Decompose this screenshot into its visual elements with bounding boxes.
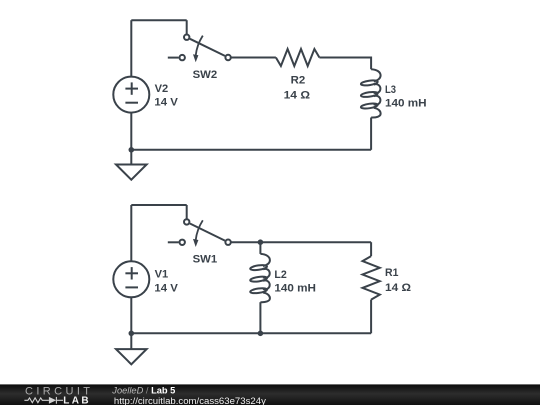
ground (top circuit)	[116, 165, 147, 180]
SW1 left throw circle	[180, 240, 185, 245]
SW1 left throw stub	[168, 241, 179, 243]
node junction (bottom circuit, ground)	[129, 331, 135, 337]
wire R1 top	[370, 242, 372, 256]
wire SW1 to L2 node and on to R1	[231, 241, 371, 243]
wire V2 bottom	[130, 113, 132, 150]
SW1 arm	[190, 224, 225, 241]
svg-text:14 Ω: 14 Ω	[385, 282, 411, 294]
wire ground stem (top)	[130, 150, 132, 165]
node junction (L2 bottom)	[258, 331, 264, 337]
switch SW2	[168, 35, 231, 63]
svg-text:JoelleD / Lab 5: JoelleD / Lab 5	[111, 386, 175, 396]
wire R1 bottom	[370, 300, 372, 334]
svg-text:L3: L3	[385, 84, 396, 96]
SW1 right throw circle	[225, 240, 230, 245]
SW2 actuation arc	[196, 36, 203, 56]
wire top rail (bottom circuit)	[131, 204, 186, 206]
wire top rail	[131, 19, 186, 21]
voltage source V1	[113, 261, 149, 297]
voltage source V2	[113, 77, 149, 113]
wire top-left vertical (V1 top to rail)	[130, 205, 132, 261]
svg-text:SW1: SW1	[193, 254, 218, 266]
SW2 arrow head	[193, 54, 198, 62]
wire L3 to bottom rail	[370, 118, 372, 150]
svg-text:14 V: 14 V	[154, 283, 178, 295]
ground (bottom circuit)	[116, 349, 147, 364]
wire bottom rail (top circuit)	[131, 149, 371, 151]
node junction (L2 top)	[258, 239, 264, 245]
logo diode triangle	[49, 397, 56, 404]
switch SW1	[168, 219, 231, 247]
wire bottom rail (bottom circuit)	[131, 332, 371, 334]
SW1 arrow head	[193, 239, 198, 247]
logo schematic wire with resistor and diode	[24, 397, 63, 404]
svg-text:LAB: LAB	[63, 395, 91, 405]
wire L2 top	[259, 242, 261, 254]
SW2 right throw circle	[225, 55, 230, 60]
svg-text:140 mH: 140 mH	[385, 98, 427, 110]
svg-text:http://circuitlab.com/cass63e7: http://circuitlab.com/cass63e73s24y	[114, 396, 266, 405]
svg-text:R2: R2	[291, 75, 306, 87]
wire R2 to corner	[319, 58, 371, 70]
wire V1 bottom	[130, 297, 132, 333]
svg-text:SW2: SW2	[193, 69, 218, 81]
resistor R2	[276, 49, 320, 66]
svg-text:14 V: 14 V	[154, 97, 178, 109]
inductor L3	[361, 69, 381, 117]
wire top-left vertical (V2 top to top rail)	[130, 20, 132, 76]
wire ground stem (bottom)	[130, 333, 132, 349]
SW2 left throw stub	[168, 57, 179, 59]
svg-text:V2: V2	[155, 83, 169, 95]
inductor L2	[250, 254, 270, 302]
svg-text:L2: L2	[274, 269, 286, 281]
wire down to SW2 pivot	[186, 20, 188, 34]
SW1 pivot circle	[184, 219, 189, 224]
wire SW2 to R2	[231, 57, 276, 59]
wire L2 bottom	[259, 302, 261, 333]
svg-text:R1: R1	[385, 267, 398, 279]
node junction (top circuit, ground)	[129, 147, 135, 153]
SW1 actuation arc	[196, 220, 203, 240]
SW2 pivot circle	[184, 35, 189, 40]
footer bar background	[0, 384, 540, 405]
svg-text:14 Ω: 14 Ω	[284, 90, 311, 102]
SW2 left throw circle	[180, 55, 185, 60]
svg-text:140 mH: 140 mH	[274, 283, 316, 295]
SW2 arm	[190, 39, 225, 56]
wire down to SW1 pivot	[186, 205, 188, 219]
resistor R1	[363, 256, 380, 300]
svg-text:V1: V1	[155, 269, 169, 281]
